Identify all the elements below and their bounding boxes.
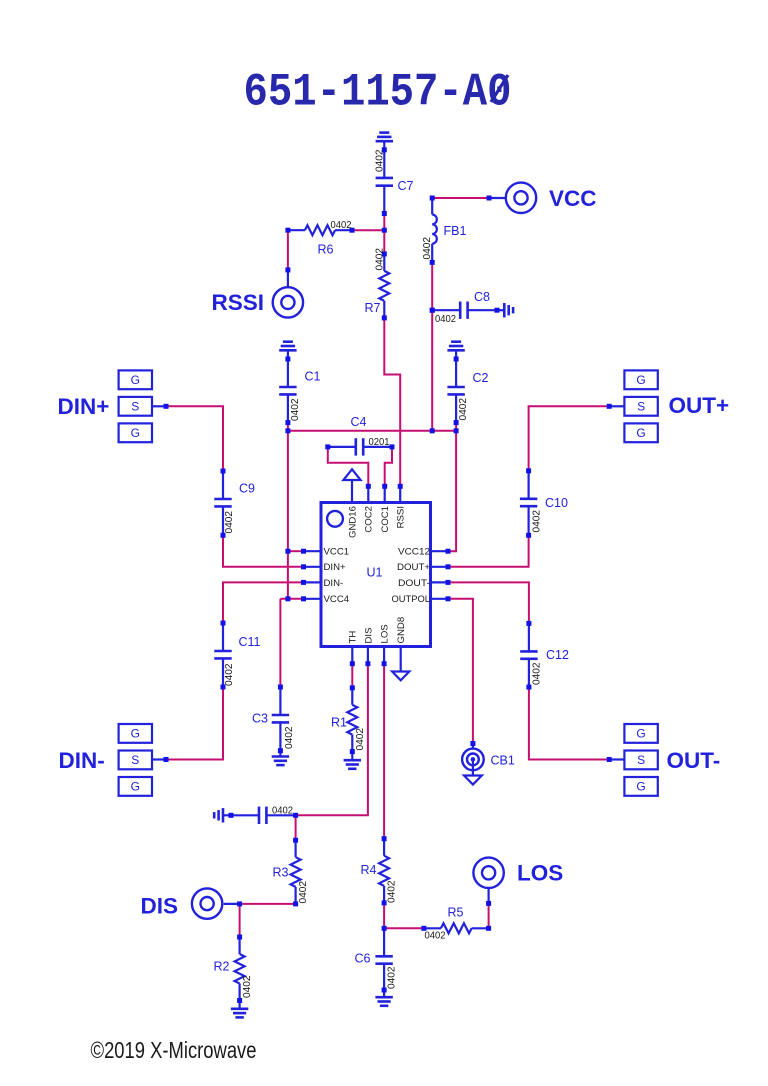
- svg-text:0402: 0402: [355, 728, 366, 751]
- svg-text:0402: 0402: [387, 966, 398, 989]
- svg-text:S: S: [637, 400, 645, 414]
- svg-text:C6: C6: [355, 952, 371, 966]
- svg-text:0402: 0402: [375, 149, 386, 172]
- svg-text:TH: TH: [348, 631, 359, 644]
- svg-text:0402: 0402: [435, 314, 456, 325]
- svg-text:OUT+: OUT+: [669, 393, 730, 418]
- svg-text:0402: 0402: [458, 398, 469, 421]
- svg-text:0402: 0402: [224, 663, 235, 686]
- svg-text:G: G: [131, 727, 140, 741]
- svg-text:DOUT+: DOUT+: [397, 562, 430, 573]
- svg-text:R4: R4: [361, 863, 377, 877]
- svg-text:C8: C8: [474, 290, 490, 304]
- svg-text:R7: R7: [365, 301, 381, 315]
- svg-text:0402: 0402: [290, 398, 301, 421]
- svg-text:651-1157-A0: 651-1157-A0: [244, 67, 512, 119]
- svg-text:C11: C11: [239, 635, 261, 649]
- svg-text:C10: C10: [545, 496, 568, 510]
- svg-text:0402: 0402: [532, 510, 543, 533]
- svg-text:DIS: DIS: [363, 628, 374, 644]
- svg-text:CB1: CB1: [491, 754, 515, 768]
- svg-text:DIN+: DIN+: [58, 394, 110, 419]
- svg-text:G: G: [131, 426, 140, 440]
- svg-text:0402: 0402: [422, 237, 433, 260]
- svg-text:0402: 0402: [331, 220, 352, 231]
- svg-text:RSSI: RSSI: [212, 290, 265, 315]
- svg-text:G: G: [636, 373, 645, 387]
- svg-text:R5: R5: [448, 906, 464, 920]
- svg-text:0402: 0402: [224, 511, 235, 534]
- svg-text:C9: C9: [239, 482, 255, 496]
- svg-text:G: G: [131, 780, 140, 794]
- svg-text:0402: 0402: [284, 726, 295, 749]
- svg-text:VCC4: VCC4: [324, 594, 350, 605]
- svg-text:R3: R3: [273, 866, 289, 880]
- svg-text:G: G: [636, 727, 645, 741]
- svg-text:S: S: [131, 400, 139, 414]
- svg-text:©2019 X-Microwave: ©2019 X-Microwave: [91, 1037, 257, 1063]
- svg-text:LOS: LOS: [517, 861, 563, 886]
- svg-text:LOS: LOS: [380, 624, 391, 643]
- svg-text:S: S: [131, 753, 139, 767]
- svg-text:S: S: [637, 753, 645, 767]
- svg-text:U1: U1: [367, 566, 383, 580]
- svg-text:GND16: GND16: [347, 506, 358, 538]
- svg-text:DIN-: DIN-: [324, 578, 344, 589]
- svg-text:DIN-: DIN-: [59, 748, 105, 773]
- svg-text:0402: 0402: [298, 881, 309, 904]
- svg-text:0402: 0402: [387, 880, 398, 903]
- svg-text:VCC1: VCC1: [324, 547, 350, 558]
- svg-text:OUTPOL: OUTPOL: [392, 594, 431, 605]
- svg-text:COC2: COC2: [364, 506, 375, 533]
- svg-text:C12: C12: [546, 648, 569, 662]
- svg-text:VCC: VCC: [549, 186, 597, 211]
- svg-text:R1: R1: [331, 716, 347, 730]
- svg-text:0402: 0402: [532, 662, 543, 685]
- svg-text:DOUT-: DOUT-: [398, 578, 430, 589]
- svg-text:COC1: COC1: [380, 506, 391, 533]
- svg-text:G: G: [131, 373, 140, 387]
- svg-text:C7: C7: [398, 179, 414, 193]
- svg-text:FB1: FB1: [444, 224, 467, 238]
- svg-text:DIS: DIS: [141, 894, 179, 919]
- svg-text:0201: 0201: [369, 437, 390, 448]
- svg-text:0402: 0402: [375, 248, 386, 271]
- svg-text:RSSI: RSSI: [396, 506, 407, 528]
- svg-text:0402: 0402: [242, 975, 253, 998]
- svg-text:G: G: [636, 426, 645, 440]
- svg-text:0402: 0402: [425, 931, 446, 942]
- svg-text:C1: C1: [305, 370, 321, 384]
- svg-text:OUT-: OUT-: [667, 748, 721, 773]
- svg-text:C2: C2: [473, 371, 489, 385]
- svg-text:R2: R2: [214, 960, 230, 974]
- svg-text:C3: C3: [252, 712, 268, 726]
- svg-text:GND8: GND8: [396, 617, 407, 644]
- svg-text:C4: C4: [351, 415, 367, 429]
- svg-text:G: G: [636, 780, 645, 794]
- svg-text:VCC12: VCC12: [398, 547, 430, 558]
- svg-text:R6: R6: [318, 243, 334, 257]
- svg-text:DIN+: DIN+: [324, 562, 347, 573]
- svg-text:0402: 0402: [272, 806, 293, 817]
